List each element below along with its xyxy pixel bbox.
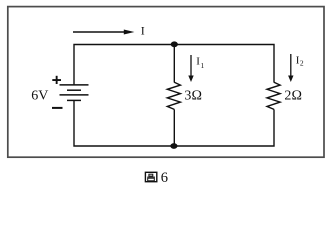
outer white background xyxy=(0,0,332,188)
current arrow I1 xyxy=(188,55,193,82)
wire top rail (battery + up, across node A, down to R2) xyxy=(74,45,274,86)
current arrow I xyxy=(73,30,134,35)
resistor R1 3 ohm xyxy=(167,82,180,109)
wire bottom rail (battery - down, across node B, up to R2) xyxy=(74,100,274,146)
wire R1 bottom lead xyxy=(173,109,175,146)
battery minus sign xyxy=(52,107,63,109)
battery plus sign xyxy=(52,76,61,84)
svg-text:3Ω: 3Ω xyxy=(184,89,202,104)
wire R1 top lead xyxy=(173,45,175,83)
caption figure 6 xyxy=(145,172,156,181)
node B (bottom junction) xyxy=(170,143,177,149)
svg-text:6: 6 xyxy=(161,170,168,186)
node A (top junction) xyxy=(171,41,178,47)
svg-text:6V: 6V xyxy=(31,89,48,104)
svg-text:I: I xyxy=(141,23,145,37)
current arrow I2 xyxy=(288,54,293,82)
svg-text:2Ω: 2Ω xyxy=(284,89,302,104)
battery V1 6V xyxy=(60,85,89,101)
resistor R2 2 ohm xyxy=(267,82,280,109)
